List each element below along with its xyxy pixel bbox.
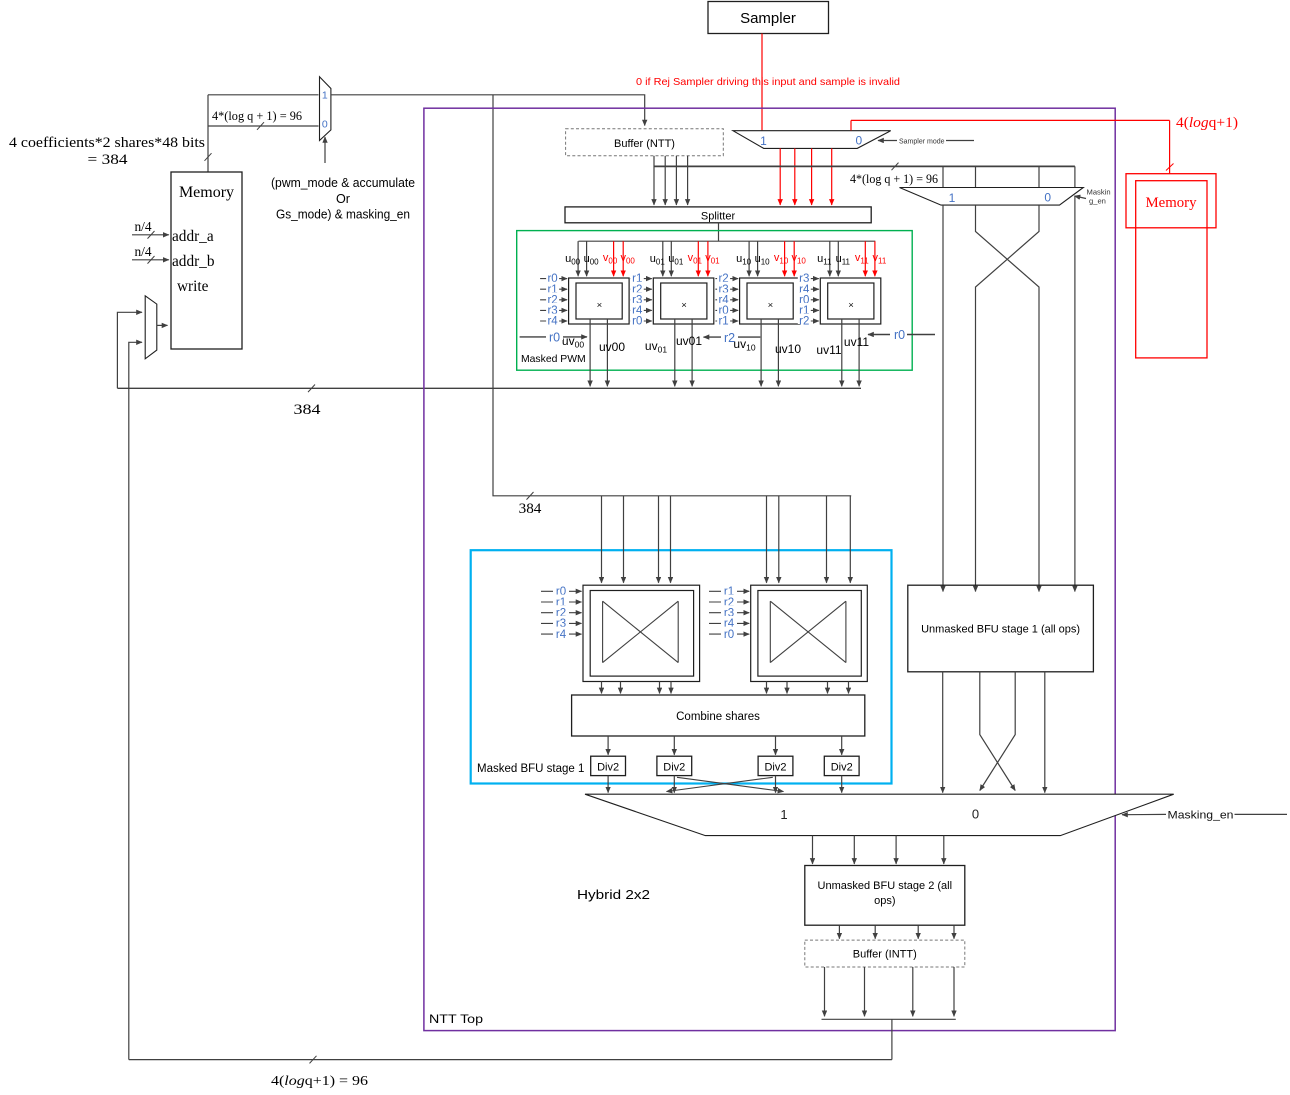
svg-text:4*(log q + 1) = 96: 4*(log q + 1) = 96	[212, 109, 303, 123]
wire BFU1 output 1	[942, 672, 944, 793]
div2 block 1	[591, 756, 626, 775]
svg-text:addr_b: addr_b	[172, 253, 215, 270]
wire buffer NTT output 4	[687, 156, 689, 205]
wire 384 bus to masked BFU left input 3	[658, 496, 660, 583]
svg-text:v01: v01	[688, 252, 703, 266]
svg-text:0: 0	[972, 806, 979, 821]
wire INTT output 4	[953, 967, 955, 1016]
buffer INTT block	[805, 940, 965, 967]
wire splitter output drop	[718, 223, 720, 241]
svg-text:Div2: Div2	[831, 761, 853, 773]
mux M2 (memory write-back select)	[145, 296, 157, 359]
wire masking_en control	[1122, 813, 1166, 815]
wire r-input r1 to U1	[540, 288, 567, 290]
wire Div2 4 output to mux	[841, 776, 843, 793]
wire collector drop	[891, 1019, 893, 1059]
wire BFU1 input column 1	[942, 205, 944, 591]
wire Div2 1 output to mux	[607, 776, 609, 793]
buffer NTT block	[566, 129, 724, 156]
svg-text:Sampler: Sampler	[740, 10, 796, 27]
wire r-input r4 to U1	[540, 320, 567, 322]
svg-text:Or: Or	[336, 192, 350, 206]
NTT Top boundary box	[424, 108, 1115, 1030]
wire U3 output uv10 share1	[777, 319, 779, 386]
wire memory read to mux input 1	[208, 94, 319, 96]
wire bus stub 4	[1074, 166, 1076, 187]
butterfly BFU-A diagonal 2	[603, 601, 679, 662]
svg-text:1: 1	[780, 807, 787, 822]
mux M3 (sampler mode select)	[733, 131, 891, 149]
wire r-input r2 to BFU-B	[709, 601, 749, 603]
PWM unit U1 outer box	[569, 278, 630, 324]
red memory block outer	[1126, 174, 1216, 228]
wire r-input r0 to U1	[540, 278, 567, 280]
wire BFU1 input column 3 with cross	[976, 205, 1040, 591]
wire Div2 2 crossing output	[677, 777, 784, 791]
memory block	[171, 172, 242, 349]
wire 384 bus to masked BFU left input 2	[623, 496, 625, 583]
wire r-input r1 to U3	[715, 320, 738, 322]
masked BFU stage 1 group box	[471, 550, 892, 783]
wire mux M5 output 1	[812, 836, 814, 864]
wire r-input r3 to BFU-A	[541, 622, 582, 624]
wire bus stub 3	[1038, 166, 1040, 187]
svg-text:uv01: uv01	[645, 339, 667, 355]
wire combine to Div2 1	[607, 736, 609, 755]
wire red 4(logq+1) horizontal	[851, 119, 1170, 121]
PWM unit U3 input u10 share0	[748, 241, 750, 276]
wire mux M5 output 4	[943, 836, 945, 864]
PWM unit U1 input v00 share0	[613, 241, 615, 276]
wire Div2 2 output straight	[673, 776, 675, 793]
wire r-input r3 to U3	[715, 288, 738, 290]
svg-text:NTT Top: NTT Top	[429, 1012, 483, 1026]
svg-text:4(logq+1): 4(logq+1)	[1176, 115, 1238, 131]
wire BFU2 output 4	[953, 925, 955, 939]
wire 384 bus to masked BFU left input 1	[601, 496, 603, 583]
wire BFU2 output 2	[874, 925, 876, 939]
red memory block inner tall	[1136, 181, 1207, 358]
wire BFU1 output 3 with cross	[980, 672, 1015, 791]
wire U1 output uv00 share0	[589, 319, 591, 386]
svg-text:Buffer (INTT): Buffer (INTT)	[853, 949, 917, 961]
wire bus stub 1	[942, 166, 944, 187]
wire U1 output uv00 share1	[606, 319, 608, 386]
splitter block	[565, 207, 871, 223]
wire mux M1 select control	[324, 137, 326, 163]
wire r-input r2 to U4	[802, 320, 819, 322]
wire 384 bus to masked BFU right input 2	[778, 496, 780, 583]
wire combine to Div2 3	[775, 736, 777, 755]
butterfly BFU-A crossing left edge	[602, 601, 604, 662]
wire sampler mode control	[878, 140, 897, 142]
wire U3 output uv10 share0	[760, 319, 762, 386]
svg-text:Masking_en: Masking_en	[1168, 810, 1234, 822]
PWM unit U3 inner box	[747, 283, 793, 319]
PWM unit U3 input v10 share1	[793, 241, 795, 276]
svg-text:1: 1	[949, 191, 956, 205]
wire r-input r3 to U2	[631, 299, 652, 301]
PWM unit U3 outer box	[740, 278, 801, 324]
label 384 on memory bus	[308, 385, 315, 393]
wire BFU1 output 4	[1044, 672, 1046, 793]
PWM unit U4 outer box	[820, 278, 881, 324]
wire r-input r4 to U3	[715, 299, 738, 301]
wire 384 bus to masked BFU left input 4	[670, 496, 672, 583]
mux M4 (masking_en select)	[900, 188, 1084, 206]
wire INTT output collector	[822, 1018, 956, 1020]
svg-text:v00: v00	[620, 252, 635, 266]
wire mux M2 output to memory	[157, 324, 168, 326]
svg-text:r4: r4	[556, 629, 567, 641]
svg-text:384: 384	[519, 500, 542, 517]
PWM unit U1 input u00 share0	[577, 241, 579, 276]
PWM unit U1 inner box	[576, 283, 622, 319]
wire mux M3 red output 3	[811, 148, 813, 205]
div2 block 4	[824, 756, 859, 775]
wire 384 bus to masked BFU right input 4	[849, 496, 851, 583]
unmasked BFU stage 1 block	[908, 585, 1094, 672]
svg-text:r4: r4	[547, 316, 558, 328]
svg-text:uv00: uv00	[599, 340, 625, 354]
svg-text:Sampler mode: Sampler mode	[899, 138, 945, 145]
wire r2 injection middle	[704, 336, 761, 338]
wire 384 bus horizontal	[117, 387, 861, 389]
butterfly unit BFU-A outer box	[583, 585, 700, 681]
wire r-input r0 to BFU-A	[541, 590, 582, 592]
svg-text:uv10: uv10	[775, 342, 801, 356]
masked PWM group box	[517, 231, 913, 371]
wire r-input r4 to BFU-A	[541, 633, 582, 635]
svg-text:n/4: n/4	[134, 244, 151, 259]
svg-text:r2: r2	[724, 331, 735, 345]
wire r-input r2 to U2	[631, 288, 652, 290]
unmasked BFU stage 2 block	[805, 866, 965, 926]
mux M1 (pwm_mode select)	[320, 77, 331, 141]
svg-text:0: 0	[855, 133, 862, 147]
wire mux M1 output to Buffer NTT	[331, 95, 645, 126]
wire U2 output uv01 share1	[691, 319, 693, 386]
svg-text:v10: v10	[791, 252, 806, 266]
wire masked BFU right output 2 to combine	[786, 682, 788, 694]
svg-text:r2: r2	[799, 316, 809, 328]
PWM unit U2 outer box	[653, 278, 714, 324]
wire masked BFU left output 3 to combine	[659, 682, 661, 694]
wire r-input r3 to U4	[802, 278, 819, 280]
svg-text:0: 0	[322, 119, 328, 131]
wire r-input r0 to BFU-B	[709, 633, 749, 635]
svg-text:×: ×	[848, 300, 854, 311]
svg-text:Hybrid 2x2: Hybrid 2x2	[577, 888, 650, 902]
wire memory read to mux input 0	[208, 125, 319, 127]
wire Div2 3 crossing output	[667, 777, 773, 791]
PWM unit U4 input u11 share1	[837, 241, 839, 276]
svg-text:0 if Rej Sampler driving this: 0 if Rej Sampler driving this input and …	[636, 77, 900, 88]
PWM unit U3 input u10 share1	[757, 241, 759, 276]
svg-text:u01: u01	[668, 253, 684, 267]
wire r-input r0 to U2	[631, 320, 652, 322]
wire BFU2 output 1	[838, 925, 840, 939]
svg-text:write: write	[177, 278, 209, 295]
PWM unit U4 input v11 share1	[874, 241, 876, 276]
sampler block	[708, 2, 829, 34]
wire feedback to mux M2 lower input	[129, 342, 142, 1059]
butterfly unit BFU-B outer box	[751, 585, 868, 681]
svg-text:Buffer (NTT): Buffer (NTT)	[614, 138, 675, 150]
wire r0 injection left	[520, 336, 587, 338]
svg-text:Maskin: Maskin	[1087, 188, 1111, 197]
svg-text:uv11: uv11	[816, 343, 841, 357]
wire r-input r1 to U4	[802, 309, 819, 311]
svg-text:u10: u10	[755, 253, 771, 267]
wire Div2 3 output straight	[775, 776, 777, 793]
butterfly unit BFU-A inner box	[590, 591, 693, 677]
svg-text:Splitter: Splitter	[701, 211, 736, 223]
wire r0 injection right	[868, 334, 935, 336]
svg-text:uv01: uv01	[676, 334, 702, 348]
PWM unit U3 input v10 share0	[784, 241, 786, 276]
svg-text:Gs_mode) & masking_en: Gs_mode) & masking_en	[276, 208, 410, 222]
wire mux M3 red output 4	[831, 148, 833, 205]
PWM unit U4 input u11 share0	[829, 241, 831, 276]
div2 block 3	[758, 756, 793, 775]
svg-text:4*(log q + 1) = 96: 4*(log q + 1) = 96	[850, 172, 939, 186]
PWM unit U2 input v01 share1	[707, 241, 709, 276]
wire buffer NTT output 1	[653, 156, 655, 205]
svg-text:Masked PWM: Masked PWM	[521, 354, 586, 365]
wire r-input r3 to U1	[540, 309, 567, 311]
wire r-input r2 to BFU-A	[541, 612, 582, 614]
wire U2 output uv01 share0	[674, 319, 676, 386]
svg-text:r0: r0	[724, 629, 734, 641]
svg-text:×: ×	[681, 300, 687, 311]
wire red vertical into memory	[1169, 120, 1171, 174]
wire r-input r0 to U4	[802, 299, 819, 301]
wire sampler output (red)	[761, 34, 763, 131]
svg-text:v11: v11	[872, 252, 886, 266]
wire INTT output 1	[824, 967, 826, 1016]
wire BFU1 output 2 with cross	[980, 672, 1015, 791]
butterfly BFU-A crossing right edge	[677, 601, 679, 662]
svg-text:1: 1	[760, 134, 767, 148]
svg-text:Unmasked BFU stage 1 (all ops): Unmasked BFU stage 1 (all ops)	[921, 624, 1080, 636]
svg-text:Div2: Div2	[597, 761, 619, 773]
svg-text:r0: r0	[549, 331, 560, 345]
PWM unit U2 inner box	[661, 283, 707, 319]
wire mux M5 output 3	[895, 836, 897, 864]
wire r-input r3 to BFU-B	[709, 612, 749, 614]
PWM unit U4 input v11 share0	[864, 241, 866, 276]
wire mux M5 output 2	[853, 836, 855, 864]
PWM unit U1 input v00 share1	[622, 241, 624, 276]
PWM unit U2 input u01 share0	[662, 241, 664, 276]
wire INTT output 3	[912, 967, 914, 1016]
wire BFU2 output 3	[917, 925, 919, 939]
PWM unit U1 input u00 share1	[586, 241, 588, 276]
svg-text:v00: v00	[603, 252, 618, 266]
wire tee down to BFU input bus	[493, 95, 851, 496]
wire r-input r1 to BFU-A	[541, 601, 582, 603]
svg-text:Combine shares: Combine shares	[676, 711, 760, 723]
wire buffer NTT output 2	[664, 156, 666, 205]
wire r-input r1 to BFU-B	[709, 590, 749, 592]
wire 384 bus to masked BFU right input 1	[766, 496, 768, 583]
svg-text:Div2: Div2	[663, 761, 685, 773]
svg-text:ops): ops)	[874, 895, 895, 907]
wire masked BFU right output 3 to combine	[827, 682, 829, 694]
wire 4*(log q+1)=96 bus to masking mux	[654, 165, 1075, 167]
butterfly BFU-B diagonal 1	[770, 601, 846, 662]
wire memory top vertical	[207, 95, 209, 172]
label Maskin g_en	[1075, 196, 1087, 199]
svg-text:×: ×	[768, 300, 774, 311]
combine shares block	[572, 695, 865, 736]
svg-text:r1: r1	[718, 316, 728, 328]
wire feedback bottom horizontal	[129, 1059, 892, 1061]
wire r-input r0 to U3	[715, 309, 738, 311]
wire 384 bus to mux M2 upper input	[117, 312, 142, 388]
svg-text:uv11: uv11	[844, 335, 869, 349]
PWM unit U2 input u01 share1	[670, 241, 672, 276]
wire BFU1 input column 4	[1074, 196, 1076, 592]
wire mux M3 red output 2	[794, 148, 796, 205]
svg-text:n/4: n/4	[134, 219, 151, 234]
wire bus stub 2	[975, 166, 977, 187]
svg-text:Unmasked BFU stage 2 (all: Unmasked BFU stage 2 (all	[818, 880, 953, 892]
svg-text:v10: v10	[774, 252, 789, 266]
div2 block 2	[657, 756, 692, 775]
svg-text:v01: v01	[705, 252, 720, 266]
butterfly BFU-B crossing right edge	[845, 601, 847, 662]
wire masked BFU right output 4 to combine	[848, 682, 850, 694]
wire combine to Div2 4	[841, 736, 843, 755]
wire U4 output uv11 share0	[841, 319, 843, 386]
wire r-input r4 to BFU-B	[709, 622, 749, 624]
wire mux M3 red output 1	[779, 148, 781, 205]
PWM unit U2 input v01 share0	[697, 241, 699, 276]
wire r-input r4 to U4	[802, 288, 819, 290]
wire masked BFU left output 1 to combine	[601, 682, 603, 694]
svg-text:u11: u11	[836, 253, 851, 267]
wire 384 bus to masked BFU right input 3	[826, 496, 828, 583]
svg-text:4(logq+1) = 96: 4(logq+1) = 96	[271, 1073, 368, 1089]
wire PWM distribution line	[579, 240, 876, 242]
butterfly BFU-B crossing left edge	[769, 601, 771, 662]
wire masked BFU right output 1 to combine	[766, 682, 768, 694]
wire r-input r4 to U2	[631, 309, 652, 311]
wire U4 output uv11 share1	[858, 319, 860, 386]
svg-text:×: ×	[597, 300, 603, 311]
svg-text:Memory: Memory	[179, 184, 234, 201]
svg-text:1: 1	[322, 89, 328, 101]
svg-text:u00: u00	[584, 253, 600, 267]
butterfly BFU-B diagonal 2	[770, 601, 846, 662]
svg-text:Div2: Div2	[764, 761, 786, 773]
svg-text:r0: r0	[894, 328, 905, 342]
svg-text:v11: v11	[855, 252, 869, 266]
label 384 on BFU bus	[527, 492, 534, 500]
wire r-input r2 to U3	[715, 278, 738, 280]
wire BFU1 input column 2 with cross	[976, 205, 1040, 591]
wire red memory to mux M3 input 0	[850, 120, 852, 130]
wire INTT output 2	[864, 967, 866, 1016]
wire buffer NTT output 3	[675, 156, 677, 205]
svg-text:Masked BFU stage 1: Masked BFU stage 1	[477, 763, 584, 775]
svg-text:4 coefficients*2 shares*48 bit: 4 coefficients*2 shares*48 bits	[9, 135, 205, 151]
mux M5 (masking_en output select)	[585, 794, 1174, 835]
svg-text:addr_a: addr_a	[172, 228, 214, 245]
wire r-input r2 to U1	[540, 299, 567, 301]
wire masked BFU left output 4 to combine	[670, 682, 672, 694]
svg-text:0: 0	[1044, 190, 1051, 204]
svg-text:= 384: = 384	[88, 152, 129, 168]
svg-text:384: 384	[294, 401, 321, 418]
svg-text:(pwm_mode & accumulate: (pwm_mode & accumulate	[271, 176, 415, 190]
wire r-input r1 to U2	[631, 278, 652, 280]
svg-text:g_en: g_en	[1089, 197, 1106, 206]
wire combine to Div2 2	[673, 736, 675, 755]
wire masked BFU left output 2 to combine	[620, 682, 622, 694]
butterfly BFU-A diagonal 1	[603, 601, 679, 662]
svg-text:Memory: Memory	[1146, 195, 1198, 211]
svg-text:r0: r0	[632, 316, 642, 328]
butterfly unit BFU-B inner box	[758, 591, 861, 677]
PWM unit U4 inner box	[828, 283, 874, 319]
